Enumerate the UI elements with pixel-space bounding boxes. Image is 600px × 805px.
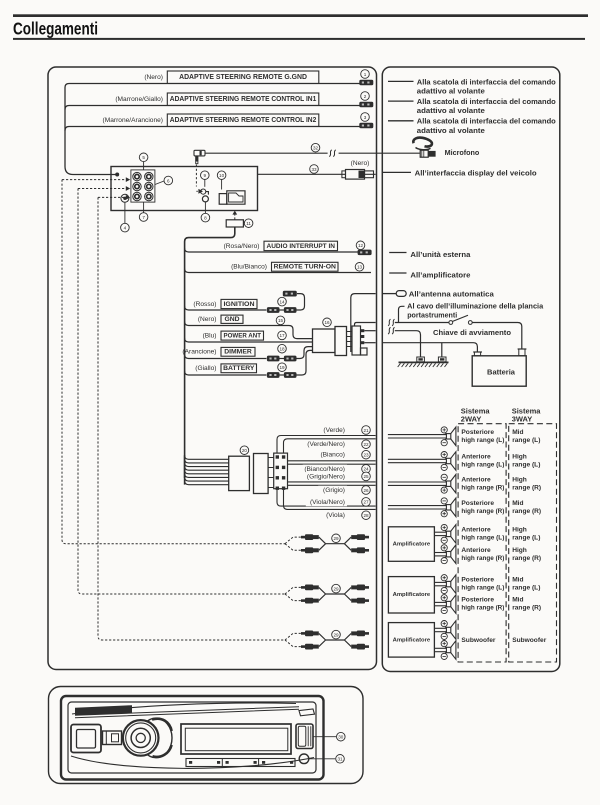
svg-text:(Grigio/Nero): (Grigio/Nero) xyxy=(307,473,345,480)
svg-text:(Blu): (Blu) xyxy=(203,333,217,340)
microphone icon xyxy=(413,138,435,158)
pair 27/28 xyxy=(277,489,376,506)
svg-text:Subwoofer: Subwoofer xyxy=(512,637,547,644)
wire bundle bottom corner into unit xyxy=(65,167,116,175)
svg-text:range (R): range (R) xyxy=(512,555,541,562)
right legend frame xyxy=(382,67,560,672)
label (Bianco) xyxy=(318,450,347,459)
svg-text:Amplificatore: Amplificatore xyxy=(393,541,431,547)
callout 30 xyxy=(313,736,336,738)
display interface stub xyxy=(383,171,411,173)
callout circle 6 xyxy=(164,176,173,185)
svg-text:21: 21 xyxy=(363,428,369,433)
svg-text:(Bianco): (Bianco) xyxy=(320,452,345,459)
callout circle 17 xyxy=(278,331,287,340)
faceplate inner bezel xyxy=(68,702,316,773)
switch circuit wire xyxy=(388,319,394,326)
svg-text:Alla scatola di interfaccia de: Alla scatola di interfaccia del comando xyxy=(417,117,557,126)
svg-text:24: 24 xyxy=(363,467,369,472)
svg-text:Posteriore: Posteriore xyxy=(461,429,494,436)
svg-text:10: 10 xyxy=(219,173,225,178)
fuse holder pair on battery xyxy=(267,372,280,378)
svg-text:Mid: Mid xyxy=(512,597,523,604)
link pins 20 to vehicle xyxy=(268,457,274,459)
wire 19 BATTERY xyxy=(185,371,267,375)
callout circle 18 xyxy=(278,344,287,353)
face bottom swoosh xyxy=(71,756,314,768)
label (Viola/Nero) xyxy=(306,498,347,507)
vehicle speaker connector xyxy=(274,453,288,489)
head unit rear panel box xyxy=(111,167,258,211)
harness pins right xyxy=(361,329,365,332)
svg-text:12: 12 xyxy=(358,243,364,248)
svg-text:(Giallo): (Giallo) xyxy=(195,365,216,372)
connector on wire 3 xyxy=(359,123,373,129)
chassis ground symbol xyxy=(417,357,446,362)
svg-text:1: 1 xyxy=(364,72,367,77)
svg-text:adattivo al volante: adattivo al volante xyxy=(417,106,485,115)
wire D (ground/battery) xyxy=(364,342,375,344)
speaker row at 507.3 xyxy=(388,505,447,507)
svg-text:30: 30 xyxy=(338,735,344,740)
battery xyxy=(472,356,526,386)
svg-text:3WAY: 3WAY xyxy=(512,415,533,424)
label ADAPTIVE STEERING REMOTE CONTROL IN2 xyxy=(167,114,318,126)
svg-text:Anteriore: Anteriore xyxy=(461,547,491,554)
label (Grigio) xyxy=(318,486,347,495)
speaker row at 461.0 xyxy=(388,458,447,460)
dashed riser P3 xyxy=(98,197,285,640)
preout jack xyxy=(145,182,153,190)
fanned speaker leads xyxy=(185,455,229,459)
svg-text:Chiave di avviamento: Chiave di avviamento xyxy=(433,328,511,337)
svg-text:range (L): range (L) xyxy=(512,462,540,469)
amp speaker row at 554.2 xyxy=(434,552,446,554)
callout line 10 xyxy=(221,180,223,190)
svg-text:32: 32 xyxy=(313,146,319,151)
svg-text:8: 8 xyxy=(204,215,207,220)
loom bus vertical xyxy=(185,227,235,478)
dashed preout feed row 1 xyxy=(62,179,126,181)
callout circle 30 xyxy=(337,732,346,741)
svg-text:23: 23 xyxy=(363,453,369,458)
callout circle 10 xyxy=(217,171,226,180)
USB connector (10) xyxy=(219,191,245,204)
amplifier stub xyxy=(389,272,406,274)
svg-text:(Arancione): (Arancione) xyxy=(182,349,216,356)
callout circle 23 xyxy=(362,450,371,459)
callout circle 12 xyxy=(356,241,365,250)
svg-text:high range (R): high range (R) xyxy=(461,605,504,612)
svg-text:Al cavo dell’illuminazione del: Al cavo dell’illuminazione della plancia xyxy=(407,301,544,310)
svg-text:high range (R): high range (R) xyxy=(461,484,504,491)
pair 21/22 xyxy=(277,436,376,454)
svg-text:high range (L): high range (L) xyxy=(461,437,504,444)
svg-text:Amplificatore: Amplificatore xyxy=(393,592,431,598)
preout jack xyxy=(133,182,141,190)
callout circle 1 xyxy=(361,70,370,79)
svg-text:3: 3 xyxy=(364,115,367,120)
callout circle 21 xyxy=(362,426,371,435)
svg-text:6: 6 xyxy=(167,178,170,183)
loom bus lower tail xyxy=(184,455,186,484)
RCA extension cable group 3 xyxy=(301,631,319,637)
wire 1 ADAPTIVE STEERING xyxy=(69,83,363,85)
svg-text:High: High xyxy=(512,547,527,554)
dashed box 3WAY xyxy=(509,424,557,662)
wire 18 DIMMER xyxy=(185,355,267,359)
svg-text:REMOTE TURN-ON: REMOTE TURN-ON xyxy=(274,264,336,271)
callout line 5 xyxy=(143,162,145,170)
svg-text:Posteriore: Posteriore xyxy=(461,577,494,584)
external unit stub xyxy=(389,252,406,254)
callout circle 4 xyxy=(121,223,130,232)
callout circle 5 xyxy=(139,153,148,162)
button bar xyxy=(186,759,295,767)
svg-text:ADAPTIVE STEERING REMOTE G.GND: ADAPTIVE STEERING REMOTE G.GND xyxy=(179,74,307,81)
callout line 7 xyxy=(143,202,145,212)
svg-text:BATTERY: BATTERY xyxy=(223,365,255,372)
svg-text:26: 26 xyxy=(363,488,369,493)
connector 20 front half xyxy=(229,456,250,490)
callout circle 29 xyxy=(332,534,341,543)
wire 17 POWER ANT xyxy=(185,338,313,342)
svg-text:(Viola/Nero): (Viola/Nero) xyxy=(310,499,345,506)
USB door xyxy=(296,724,313,749)
svg-text:5: 5 xyxy=(142,155,145,160)
ignition switch symbol xyxy=(449,321,453,325)
svg-text:31: 31 xyxy=(337,757,343,762)
callout circle 29 xyxy=(332,630,341,639)
preout jack xyxy=(133,192,141,200)
svg-text:high range (R): high range (R) xyxy=(461,555,504,562)
svg-text:Mid: Mid xyxy=(512,500,523,507)
svg-text:portastrumenti: portastrumenti xyxy=(407,311,457,320)
connector on wire 2 xyxy=(359,102,373,108)
svg-text:17: 17 xyxy=(279,333,285,338)
aux jack item under 9 xyxy=(201,189,209,195)
svg-text:13: 13 xyxy=(357,265,363,270)
amp speaker row at 650.0 xyxy=(434,647,446,649)
svg-text:(Grigio): (Grigio) xyxy=(323,487,345,494)
callout circle 8 xyxy=(201,213,210,222)
wire to auto antenna xyxy=(351,294,376,352)
svg-text:All’antenna automatica: All’antenna automatica xyxy=(409,289,495,298)
svg-text:2WAY: 2WAY xyxy=(461,415,482,424)
svg-text:range (R): range (R) xyxy=(512,605,541,612)
callout line 4 xyxy=(124,203,126,224)
bottom panel frame xyxy=(49,687,364,784)
callout line 6 xyxy=(155,181,164,185)
svg-text:Mid: Mid xyxy=(512,577,523,584)
svg-text:Collegamenti: Collegamenti xyxy=(13,19,98,39)
box 11 xyxy=(226,220,243,227)
connector 20 rear half xyxy=(254,454,269,494)
face top swoosh xyxy=(72,703,296,714)
speaker row at 436.3 xyxy=(388,434,447,436)
header top rule xyxy=(13,14,588,17)
label (Verde) xyxy=(321,426,347,435)
svg-text:range (L): range (L) xyxy=(512,437,540,444)
svg-text:high range (L): high range (L) xyxy=(461,585,504,592)
svg-text:Posteriore: Posteriore xyxy=(461,597,494,604)
svg-text:Alla scatola di interfaccia de: Alla scatola di interfaccia del comando xyxy=(417,97,557,106)
ground feed wire D xyxy=(383,343,478,352)
svg-text:7: 7 xyxy=(142,215,145,220)
rotary knob side xyxy=(140,718,172,758)
amp speaker row at 604.1 xyxy=(434,601,446,603)
callout circle 22 xyxy=(362,440,371,449)
callout 31 xyxy=(309,758,335,760)
amplifier box xyxy=(388,577,434,613)
label (Verde/Nero) xyxy=(306,440,347,449)
svg-text:4: 4 xyxy=(124,225,127,230)
wire 32 to microphone xyxy=(205,152,420,154)
dashed lead to slot 11 xyxy=(234,214,236,220)
dashed preout feed row 3 xyxy=(98,196,126,198)
svg-text:(Bianco/Nero): (Bianco/Nero) xyxy=(304,466,345,473)
wire 14 IGNITION xyxy=(185,306,267,310)
auto antenna plug icon xyxy=(383,293,396,295)
mic plug (3.5mm right-angle) xyxy=(194,150,205,163)
label box REMOTE TURN-ON xyxy=(272,262,339,271)
svg-text:All’interfaccia display del ve: All’interfaccia display del veicolo xyxy=(415,168,538,177)
preout jack xyxy=(133,172,141,180)
RCA extension cable group 2 xyxy=(301,585,319,591)
callout circle 16 xyxy=(323,318,332,327)
svg-text:2: 2 xyxy=(364,94,367,99)
svg-text:(Nero): (Nero) xyxy=(144,74,163,81)
svg-text:range (R): range (R) xyxy=(512,508,541,515)
connector on wire 1 xyxy=(359,80,373,86)
callout circle 33 xyxy=(310,165,319,174)
svg-text:IGNITION: IGNITION xyxy=(224,301,255,308)
amp speaker row at 584.1 xyxy=(434,581,446,583)
callout line 8 xyxy=(204,202,206,213)
svg-text:Anteriore: Anteriore xyxy=(461,454,491,461)
amp speaker row at 630.0 xyxy=(434,627,446,629)
callout circle 7 xyxy=(139,213,148,222)
faceplate outer xyxy=(61,696,324,780)
svg-text:29: 29 xyxy=(333,632,339,637)
illumination feed wire C xyxy=(388,327,394,334)
big left button xyxy=(71,725,101,753)
label box AUDIO INTERRUPT IN xyxy=(264,241,338,250)
svg-text:ADAPTIVE STEERING REMOTE CONTR: ADAPTIVE STEERING REMOTE CONTROL IN2 xyxy=(170,117,317,124)
cable break on wire 32 xyxy=(328,148,339,158)
callout circle 25 xyxy=(362,472,371,481)
callout circle 24 xyxy=(362,465,371,474)
callout circle 13 xyxy=(355,263,364,272)
amplifier box xyxy=(388,527,434,562)
svg-text:29: 29 xyxy=(333,586,339,591)
svg-text:high range (L): high range (L) xyxy=(461,535,504,542)
wire 2 ADAPTIVE STEERING xyxy=(69,105,363,107)
svg-text:POWER ANT: POWER ANT xyxy=(224,333,262,340)
connector pair on dimmer xyxy=(267,356,280,362)
callout circle 27 xyxy=(362,498,371,507)
pair 25/26 xyxy=(288,481,376,483)
svg-text:High: High xyxy=(512,527,527,534)
vehicle harness connector xyxy=(352,326,367,355)
svg-text:15: 15 xyxy=(278,318,284,323)
dashed preout feed row 2 xyxy=(78,188,126,190)
vehicle ignition connector xyxy=(283,291,297,297)
wire bundle left vertical xyxy=(64,88,66,167)
svg-text:18: 18 xyxy=(279,347,285,352)
svg-text:Amplificatore: Amplificatore xyxy=(393,637,431,643)
preout jack xyxy=(145,172,153,180)
small button xyxy=(103,731,122,745)
svg-text:All’unità esterna: All’unità esterna xyxy=(410,250,471,259)
svg-text:(Marrone/Giallo): (Marrone/Giallo) xyxy=(115,96,163,103)
svg-text:Batteria: Batteria xyxy=(487,368,516,377)
callout circle 11 xyxy=(244,219,253,228)
svg-text:Microfono: Microfono xyxy=(445,148,480,157)
aux button xyxy=(299,754,309,764)
svg-text:adattivo al volante: adattivo al volante xyxy=(417,126,485,135)
antenna barrel connector on wire 33 xyxy=(342,170,374,180)
label ADAPTIVE STEERING REMOTE G.GND xyxy=(167,71,318,83)
svg-text:Anteriore: Anteriore xyxy=(461,476,491,483)
svg-text:9: 9 xyxy=(204,173,207,178)
wire 33 to vehicle display interface xyxy=(258,173,376,175)
svg-text:Subwoofer: Subwoofer xyxy=(461,637,496,644)
callout circle 9 xyxy=(201,171,210,180)
svg-text:25: 25 xyxy=(363,474,369,479)
RCA extension cable group 1 xyxy=(301,534,319,540)
rotary knob xyxy=(123,720,159,756)
callout circle 29 xyxy=(332,584,341,593)
wire 12 AUDIO INTERRUPT IN xyxy=(185,248,364,252)
illumination branch xyxy=(399,306,405,322)
callout circle 15 xyxy=(276,316,285,325)
dashed riser P2 xyxy=(78,189,285,595)
right panel stubs rows 1-3 xyxy=(388,80,414,82)
label (Grigio/Nero) xyxy=(303,472,347,481)
svg-text:(Verde/Nero): (Verde/Nero) xyxy=(307,441,345,448)
svg-text:19: 19 xyxy=(279,365,285,370)
svg-text:28: 28 xyxy=(363,513,369,518)
label (Bianco/Nero) xyxy=(303,465,347,474)
svg-text:(Nero): (Nero) xyxy=(351,160,370,167)
antenna jack (4) xyxy=(121,194,129,202)
header lower rule xyxy=(13,38,585,40)
preout jack xyxy=(145,192,153,200)
callout circle 19 xyxy=(278,363,287,372)
svg-text:29: 29 xyxy=(333,536,339,541)
speaker row at 483.7 xyxy=(388,481,447,483)
svg-text:11: 11 xyxy=(246,221,251,226)
dashed lead from mic plug to jack 9 xyxy=(195,165,197,187)
svg-text:GND: GND xyxy=(224,316,239,323)
callout circle 20 xyxy=(240,446,249,455)
dashed box 2WAY xyxy=(458,424,506,662)
amplifier box xyxy=(388,623,434,658)
fuse holder pair on ignition xyxy=(267,307,280,313)
label (Viola) xyxy=(321,511,347,520)
dashed riser P1 xyxy=(62,180,285,544)
wire to ignition switch xyxy=(355,323,376,327)
svg-text:adattivo al volante: adattivo al volante xyxy=(417,87,485,96)
svg-text:20: 20 xyxy=(242,448,248,453)
svg-text:high range (L): high range (L) xyxy=(461,462,504,469)
svg-text:27: 27 xyxy=(363,500,369,505)
display window xyxy=(181,724,291,754)
callout circle 31 xyxy=(336,755,345,764)
svg-text:ADAPTIVE STEERING REMOTE CONTR: ADAPTIVE STEERING REMOTE CONTROL IN1 xyxy=(170,96,317,103)
svg-text:All’amplificatore: All’amplificatore xyxy=(410,270,470,279)
disc slot dark wedge xyxy=(75,705,132,715)
eject button xyxy=(299,709,315,716)
ISO connector block 16 xyxy=(313,329,336,353)
wire 3 ADAPTIVE STEERING xyxy=(69,126,363,128)
svg-text:(Rosso): (Rosso) xyxy=(193,301,216,308)
svg-text:Posteriore: Posteriore xyxy=(461,500,494,507)
svg-text:(Rosa/Nero): (Rosa/Nero) xyxy=(224,243,260,250)
callout line 9 xyxy=(204,180,206,187)
item 8 ring xyxy=(202,196,208,202)
svg-text:range (L): range (L) xyxy=(512,535,540,542)
svg-text:Mid: Mid xyxy=(512,429,523,436)
svg-text:16: 16 xyxy=(324,320,330,325)
disc slot xyxy=(75,707,299,718)
label ADAPTIVE STEERING REMOTE CONTROL IN1 xyxy=(167,93,318,105)
svg-text:range (R): range (R) xyxy=(512,484,541,491)
mating pins xyxy=(347,331,353,333)
svg-text:range (L): range (L) xyxy=(512,585,540,592)
svg-text:(Blu/Bianco): (Blu/Bianco) xyxy=(231,263,267,270)
svg-text:DIMMER: DIMMER xyxy=(224,349,252,356)
svg-text:High: High xyxy=(512,476,527,483)
svg-text:High: High xyxy=(512,454,527,461)
svg-text:(Viola): (Viola) xyxy=(326,512,345,519)
callout circle 26 xyxy=(362,486,371,495)
wire 13 REMOTE TURN-ON xyxy=(185,269,371,273)
junction dot at unit xyxy=(115,173,119,177)
svg-text:AUDIO INTERRUPT IN: AUDIO INTERRUPT IN xyxy=(267,243,336,250)
svg-text:22: 22 xyxy=(363,442,369,447)
svg-text:14: 14 xyxy=(279,299,285,304)
svg-text:(Nero): (Nero) xyxy=(198,316,217,323)
svg-text:Anteriore: Anteriore xyxy=(461,527,491,534)
callout circle 14 xyxy=(278,297,287,306)
callout circle 28 xyxy=(362,511,371,520)
callout circle 3 xyxy=(361,113,370,122)
wire 15 GND xyxy=(185,322,313,339)
amp speaker row at 533.9 xyxy=(434,531,446,533)
preout jack grid box (5) xyxy=(131,170,155,202)
svg-text:Alla scatola di interfaccia de: Alla scatola di interfaccia del comando xyxy=(417,77,557,86)
left diagram frame xyxy=(48,67,377,670)
wire C (illumination circuit) xyxy=(364,330,375,332)
svg-text:high range (R): high range (R) xyxy=(461,508,504,515)
svg-text:(Verde): (Verde) xyxy=(323,427,345,434)
callout circle 2 xyxy=(361,92,370,101)
pair 23/24 xyxy=(288,460,376,462)
svg-text:33: 33 xyxy=(311,167,317,172)
svg-text:(Marrone/Arancione): (Marrone/Arancione) xyxy=(103,117,163,124)
callout circle 32 xyxy=(311,143,320,152)
